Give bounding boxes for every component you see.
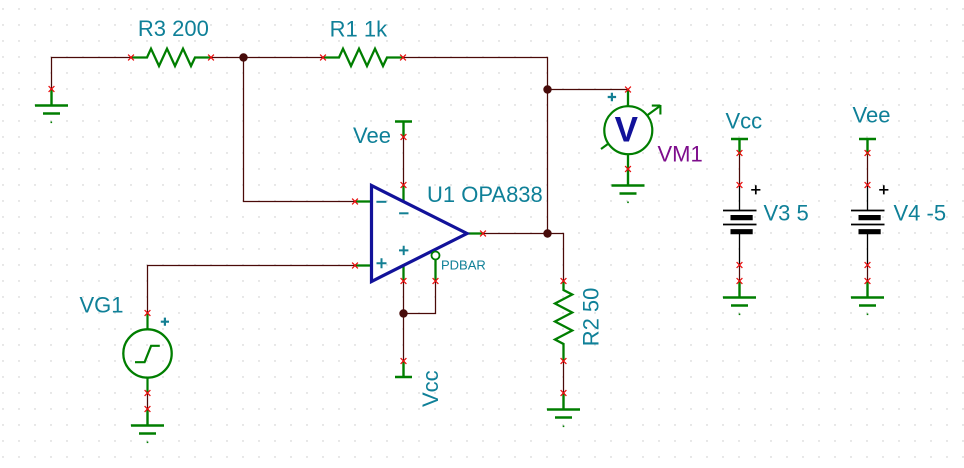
svg-text:Vee: Vee [853, 102, 891, 127]
svg-text:PDBAR: PDBAR [441, 258, 486, 273]
svg-text:R2 50: R2 50 [579, 288, 604, 347]
svg-text:V3 5: V3 5 [764, 200, 809, 225]
svg-text:VG1: VG1 [80, 292, 124, 317]
svg-text:U1 OPA838: U1 OPA838 [427, 182, 543, 207]
svg-text:R1 1k: R1 1k [330, 16, 388, 41]
svg-text:V4 -5: V4 -5 [894, 200, 947, 225]
svg-text:V: V [615, 110, 639, 149]
svg-text:Vcc: Vcc [418, 370, 443, 407]
svg-text:R3 200: R3 200 [138, 16, 209, 41]
svg-text:Vcc: Vcc [726, 109, 763, 134]
svg-text:VM1: VM1 [658, 142, 703, 167]
svg-text:Vee: Vee [353, 123, 391, 148]
